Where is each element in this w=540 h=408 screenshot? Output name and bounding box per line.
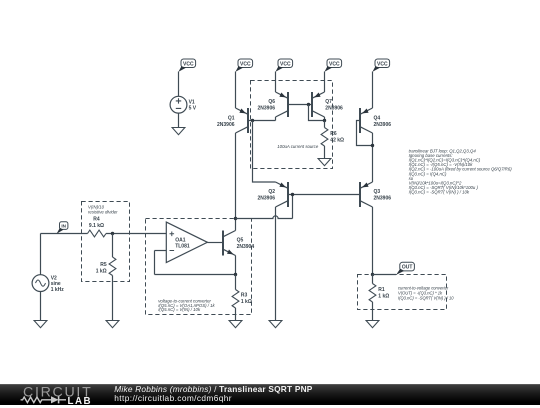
wire Q4 collector down: [372, 133, 374, 146]
svg-text:Q2: Q2: [268, 189, 275, 195]
wire Q1 collector down: [235, 133, 237, 219]
svg-text:resistive divider: resistive divider: [88, 209, 118, 214]
svg-text:IN: IN: [61, 224, 66, 229]
resistor R1: [369, 284, 376, 303]
wire Q3 collector down: [372, 207, 374, 275]
svg-text:2N3906: 2N3906: [217, 122, 235, 128]
VCC net label above V1: [179, 59, 196, 72]
svg-text:42 kΩ: 42 kΩ: [330, 137, 344, 143]
ground under R6: [318, 159, 331, 166]
VCC net label above Q1: [236, 59, 253, 72]
svg-text:R4: R4: [93, 217, 100, 223]
wire VCC to Q4 emitter: [372, 72, 374, 109]
label Q5 2N3904: [237, 238, 255, 251]
label Q6 2N3906: [257, 99, 275, 112]
node junction Q3 collector/R1/OUT: [371, 273, 374, 276]
label Q3 2N3906: [374, 189, 392, 202]
wire junction to R5: [112, 234, 114, 258]
wire feedback to Q5 emitter node: [155, 274, 236, 276]
node junction Q7 collector/R6: [323, 119, 326, 122]
wire branch down to Q2 emitter: [253, 121, 276, 183]
svg-text:VCC: VCC: [329, 61, 340, 67]
transistor Q1 2N3906: [236, 108, 249, 133]
wire IN node to R4: [41, 233, 88, 235]
voltage source V1: [170, 96, 187, 113]
node IN label: [57, 222, 68, 234]
svg-text:2N3906: 2N3906: [257, 195, 275, 201]
svg-text:R5: R5: [100, 262, 107, 268]
wire Q5 collector up: [235, 219, 237, 231]
wire Q6 base to Q7 base: [288, 104, 312, 106]
ground under V1: [172, 128, 185, 135]
label V2 sine 1 kHz: [51, 275, 65, 293]
label OA1 TL081: [175, 238, 190, 250]
svg-text:2N3906: 2N3906: [257, 106, 275, 112]
ground under R3: [229, 321, 242, 328]
label Q2 2N3906: [257, 189, 275, 202]
wire Q2 collector to ground: [275, 207, 277, 321]
wire Q5 emitter down: [235, 256, 237, 275]
svg-text:TL081: TL081: [175, 244, 190, 250]
logo resistor: [21, 397, 51, 403]
logo diode: [51, 396, 59, 403]
annotation box: current-to-voltage converter: [358, 275, 447, 310]
transistor Q3 2N3906: [360, 182, 373, 207]
label R4 9.1 kOhm: [89, 217, 104, 230]
ground under R5: [106, 321, 119, 328]
wire VCC to V1 +: [178, 72, 180, 97]
svg-text:Q1: Q1: [228, 115, 235, 121]
node junction Q1/Q5 collectors: [234, 217, 237, 220]
svg-text:I(Q5.nC) = V(IN) / 10k: I(Q5.nC) = V(IN) / 10k: [158, 307, 201, 312]
svg-text:100uA current source: 100uA current source: [277, 144, 319, 149]
label R5 1 kOhm: [96, 262, 107, 275]
wire Q4 base loop: [357, 121, 373, 146]
wire R4 to op-amp +: [106, 233, 166, 235]
svg-text:R1: R1: [378, 287, 385, 293]
voltage source V2 sine: [32, 275, 49, 292]
annotation text: voltage-to-current converter: [158, 299, 215, 313]
wire R6 to ground: [324, 146, 326, 159]
resistor R3: [232, 290, 239, 309]
wire V1 - to ground: [178, 113, 180, 127]
svg-text:R6: R6: [330, 131, 337, 137]
annotation text: V(IN)/10 resistive divider: [88, 204, 118, 214]
node junction Q4 collector/base/Q3 emitter: [371, 144, 374, 147]
wire Q7 collector stub: [324, 117, 326, 121]
svg-text:5 V: 5 V: [189, 105, 197, 111]
label R1 1 kOhm: [378, 287, 389, 300]
ground under R1: [366, 321, 379, 328]
wire VCC to Q7 emitter: [324, 72, 326, 93]
svg-text:I(Q3.nC) = -SQRT( V(IN) ) / 10: I(Q3.nC) = -SQRT( V(IN) ) / 10: [398, 296, 454, 301]
wire Q1 base to Q6 collector: [248, 120, 276, 122]
wire OUT stub: [373, 274, 397, 276]
svg-text:Q4: Q4: [374, 115, 381, 121]
svg-text:2N3906: 2N3906: [374, 122, 392, 128]
wire VCC to Q1 emitter: [235, 72, 237, 109]
wire node to R3: [235, 275, 237, 290]
annotation box: 100uA current source: [251, 81, 333, 169]
svg-text:Q5: Q5: [237, 238, 244, 244]
VCC net label above Q4: [373, 59, 390, 72]
svg-text:1 kΩ: 1 kΩ: [241, 299, 252, 305]
transistor Q4 2N3906: [360, 108, 373, 133]
svg-text:Q7: Q7: [325, 99, 332, 105]
svg-text:1 kΩ: 1 kΩ: [96, 268, 107, 274]
svg-text:I(Q3.nC) = -SQRT( V(IN) ) / 10: I(Q3.nC) = -SQRT( V(IN) ) / 10k: [409, 190, 470, 195]
wire R5 to ground: [112, 276, 114, 321]
annotation text: 100uA current source: [277, 144, 319, 149]
resistor R4: [88, 230, 107, 237]
wire Q6 collector stub: [275, 117, 277, 121]
label V1 5 V: [189, 100, 197, 112]
wire V2 to IN node: [40, 234, 42, 275]
ground under V2: [34, 321, 47, 328]
wire R1 to ground: [372, 302, 374, 321]
transistor Q7 2N3906: [312, 92, 325, 117]
wire feedback down: [154, 251, 156, 275]
transistor Q2 2N3906: [276, 182, 289, 207]
svg-text:VCC: VCC: [183, 61, 194, 67]
label R6 42 kOhm: [330, 131, 344, 144]
wire Q3 emitter up: [372, 146, 374, 183]
node OUT label: [396, 262, 414, 274]
wire Q2 base branch down: [292, 195, 294, 219]
wire node to R1: [372, 275, 374, 284]
resistor R5: [109, 257, 116, 276]
svg-text:VCC: VCC: [377, 61, 388, 67]
wire mirror base loop down: [309, 105, 325, 121]
annotation box: voltage-to-current converter: [146, 219, 252, 315]
svg-text:2N3904: 2N3904: [237, 244, 255, 250]
svg-text:1 kHz: 1 kHz: [51, 287, 65, 293]
resistor R6: [321, 128, 328, 147]
svg-text:2N3906: 2N3906: [325, 106, 343, 112]
wire OA1 - feedback left: [155, 250, 167, 252]
transistor Q5 2N3904: [223, 231, 236, 256]
svg-text:1 kΩ: 1 kΩ: [378, 293, 389, 299]
node junction Q5 emitter/R3/feedback: [234, 273, 237, 276]
node junction mirror bases: [307, 103, 310, 106]
svg-text:OUT: OUT: [402, 265, 413, 271]
footer bar: [0, 384, 540, 405]
wire Q2 base to Q3 base: [288, 194, 360, 196]
label Q4 2N3906: [374, 115, 392, 128]
wire Q7 collector to R6: [324, 121, 326, 128]
transistor Q6 2N3906: [276, 92, 289, 117]
annotation text: current-to-voltage converter: [398, 285, 454, 300]
svg-text:VCC: VCC: [280, 61, 291, 67]
svg-text:R3: R3: [241, 292, 248, 298]
node junction Q2 base: [291, 193, 294, 196]
ground under Q2: [269, 321, 282, 328]
svg-text:Q3: Q3: [374, 189, 381, 195]
label R3 1 kOhm: [241, 292, 252, 305]
VCC net label above Q7: [325, 59, 342, 72]
svg-text:VCC: VCC: [240, 61, 251, 67]
svg-text:Q6: Q6: [268, 99, 275, 105]
wire VCC to Q6 emitter: [275, 72, 277, 93]
annotation box: resistive divider: [82, 202, 130, 282]
svg-text:LAB: LAB: [68, 396, 93, 407]
annotation text: translinear BJT loop derivation: [409, 148, 513, 194]
svg-text:I(Q3.nC) = I(Q4.nC): I(Q3.nC) = I(Q4.nC): [409, 171, 447, 176]
label Q7 2N3906: [325, 99, 343, 112]
node junction R4/R5: [111, 232, 114, 235]
node junction Q1 base branch: [251, 119, 254, 122]
wire rail Q1 collector to Q2 base branch (hop over Q2 collector): [236, 216, 293, 219]
svg-text:2N3906: 2N3906: [374, 195, 392, 201]
CircuitLab logo: [20, 384, 112, 408]
svg-text:9.1 kΩ: 9.1 kΩ: [89, 223, 104, 229]
wire R3 to ground: [235, 308, 237, 321]
wire V2 to ground: [40, 292, 42, 321]
label Q1 2N3906: [217, 115, 235, 128]
wire OA1 output to Q5 base: [207, 242, 223, 244]
VCC net label above Q6: [276, 59, 293, 72]
op-amp OA1 TL081: [166, 222, 207, 262]
